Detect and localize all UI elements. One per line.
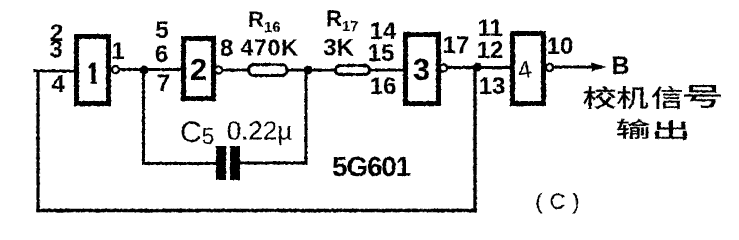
wire bottom feedback <box>38 209 475 213</box>
svg-text:3: 3 <box>413 52 430 87</box>
wire gate3 output to gate4 input <box>447 66 512 69</box>
svg-text:1: 1 <box>111 38 124 65</box>
gate U3 body <box>406 35 439 104</box>
gate U4 output bubble pin 10 <box>546 64 553 71</box>
junction node C (gate3 out / feedback tap) <box>473 63 482 72</box>
wire gate2 output to R16 <box>222 69 249 72</box>
wire left feedback vertical <box>36 71 39 210</box>
wire input to gate 1 <box>35 70 76 73</box>
svg-text:0.22µ: 0.22µ <box>227 116 293 146</box>
svg-text:4: 4 <box>51 71 65 98</box>
label char xiao (校) <box>583 86 616 109</box>
label char shu (输) <box>617 119 650 139</box>
svg-text:5G601: 5G601 <box>332 151 411 182</box>
chinese caption 校机信号 输出 <box>583 85 721 140</box>
resistor R16 body <box>249 65 288 76</box>
svg-text:470K: 470K <box>240 35 298 61</box>
junction node B (R16/R17/C5 tap) <box>304 66 313 75</box>
gate U2 body <box>184 39 214 99</box>
arrowhead of output arrow <box>592 63 607 72</box>
label char ji (机) <box>617 86 648 109</box>
wire C5 left horizontal <box>144 162 218 165</box>
wire C5 left vertical <box>142 70 145 164</box>
gate U2 output bubble pin 8 <box>215 66 222 73</box>
svg-text:(C): (C) <box>535 189 587 214</box>
wire R16 to R17 <box>288 69 337 72</box>
resistor R17 body <box>336 66 370 75</box>
wire C5 right horizontal <box>240 162 306 165</box>
gate U1 output bubble pin 1 <box>112 66 119 73</box>
svg-text:15: 15 <box>368 40 395 67</box>
svg-text:10: 10 <box>547 33 574 60</box>
gate U3 output bubble pin 17 <box>440 64 447 71</box>
capacitor C5 plates <box>216 146 226 180</box>
wire gate4 output to arrow <box>553 66 594 69</box>
junction node A (gate1 out / C5 tap) <box>140 66 149 75</box>
wire gate1 output to gate2 input <box>119 68 183 71</box>
wire R17 to gate3 input <box>369 69 405 72</box>
svg-text:7: 7 <box>157 70 170 97</box>
label char hao (号) <box>684 85 721 108</box>
svg-text:3: 3 <box>49 37 62 64</box>
svg-text:12: 12 <box>477 37 504 64</box>
svg-text:17: 17 <box>443 32 470 59</box>
gate U4 body <box>513 34 544 104</box>
svg-text:16: 16 <box>370 73 397 100</box>
svg-text:B: B <box>611 52 629 80</box>
svg-text:2: 2 <box>190 52 207 87</box>
gate U1 body <box>77 37 109 104</box>
svg-text:3K: 3K <box>323 35 354 62</box>
label char xin (信) <box>652 86 682 109</box>
gate U1 digit 1 <box>89 63 97 83</box>
svg-text:6: 6 <box>155 41 168 68</box>
svg-text:5: 5 <box>155 17 168 44</box>
label char chu (出) <box>655 120 687 140</box>
wire C5 right vertical <box>305 70 308 163</box>
wire right feedback vertical <box>473 68 476 210</box>
svg-text:8: 8 <box>220 35 233 62</box>
svg-text:13: 13 <box>479 73 506 100</box>
